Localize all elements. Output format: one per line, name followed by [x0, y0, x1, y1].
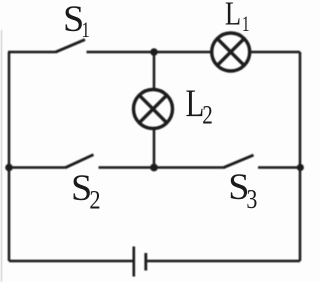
wire right vertical: [299, 52, 302, 261]
lamp L2: [134, 90, 173, 129]
svg-text:L: L: [225, 0, 241, 32]
node left (middle rail meets left wire): [5, 164, 13, 172]
svg-text:1: 1: [82, 19, 90, 43]
label S3: [228, 167, 257, 214]
battery positive plate (long): [133, 247, 136, 277]
wire S3 contact to right rail: [258, 166, 300, 169]
switch S1: [55, 40, 85, 53]
node A (top junction): [150, 48, 158, 56]
wire middle-left segment: [9, 166, 65, 169]
svg-text:3: 3: [246, 185, 257, 215]
label L1: [225, 0, 250, 37]
battery negative plate (short): [144, 253, 147, 271]
wire S1 contact to node A: [87, 51, 212, 54]
wire branch node A to L2: [153, 52, 156, 90]
wire L1 to top-right corner: [251, 51, 301, 54]
node B (middle junction): [150, 164, 158, 172]
label S1: [63, 0, 90, 43]
switch S3: [223, 155, 254, 168]
switch S2: [65, 155, 94, 168]
node right (middle rail meets right wire): [297, 164, 304, 171]
wire left vertical: [8, 52, 11, 261]
lamp L1: [212, 33, 250, 71]
svg-text:2: 2: [89, 186, 100, 215]
wire S2 contact to S3 pivot: [99, 166, 224, 169]
label S2: [71, 168, 101, 215]
wire top-left segment: [8, 51, 55, 54]
svg-text:2: 2: [202, 101, 213, 130]
wire bottom-right segment: [146, 260, 300, 263]
wire L2 to node B: [153, 129, 156, 168]
scan artifact: faint grey streak along left edge: [1, 30, 3, 282]
label L2: [186, 82, 213, 130]
svg-text:1: 1: [242, 12, 249, 36]
wire bottom-left segment: [9, 260, 134, 263]
